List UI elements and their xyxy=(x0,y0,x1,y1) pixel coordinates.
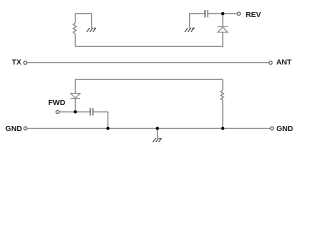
svg-text:REV: REV xyxy=(246,10,261,19)
svg-text:TX: TX xyxy=(12,58,22,67)
svg-text:GND: GND xyxy=(5,124,22,133)
svg-text:FWD: FWD xyxy=(48,98,66,107)
svg-text:GND: GND xyxy=(276,124,293,133)
svg-text:ANT: ANT xyxy=(276,58,292,67)
